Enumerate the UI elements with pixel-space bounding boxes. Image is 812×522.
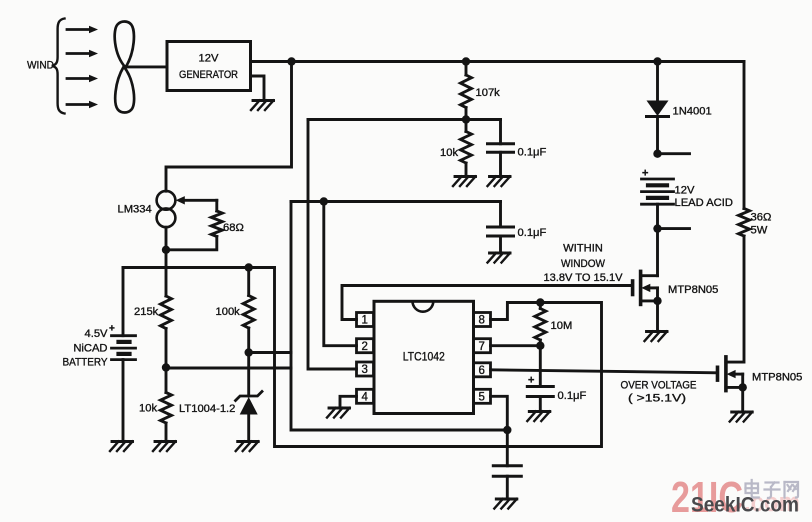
wire battery to Q1 drain	[656, 229, 659, 276]
node junction divider	[462, 115, 470, 123]
svg-text:10k: 10k	[139, 403, 157, 415]
node junction 10M bottom	[536, 342, 544, 350]
ground pin4	[327, 408, 350, 418]
node junction LM334/68ohm	[162, 246, 170, 254]
resistor R7 10k	[161, 368, 172, 442]
label 107k	[476, 87, 501, 99]
ground generator	[251, 101, 274, 111]
ground C1	[488, 177, 511, 187]
label 4.5V	[84, 328, 108, 340]
svg-text:MTP8N05: MTP8N05	[752, 372, 802, 384]
svg-text:2: 2	[361, 341, 367, 353]
svg-text:6: 6	[478, 365, 484, 377]
label LTC1042	[403, 350, 445, 364]
transistor Q1 MTP8N05	[633, 271, 662, 305]
wind turbine propeller blade lower	[115, 67, 134, 113]
svg-text:MTP8N05: MTP8N05	[668, 284, 718, 296]
wind arrow 4	[67, 101, 98, 109]
svg-text:SeekIC.com: SeekIC.com	[691, 494, 799, 517]
label battery plus sign	[642, 168, 648, 180]
svg-text:3: 3	[361, 364, 367, 376]
wire Q2 source to ground	[741, 387, 744, 412]
wire battery rail	[123, 266, 275, 269]
label 100k	[216, 306, 241, 318]
wire rail right corner to 36ohm	[743, 62, 746, 209]
pin 6 box	[474, 363, 491, 377]
pin 4 box	[357, 389, 374, 403]
label Q1 MTP8N05	[668, 284, 718, 296]
wire pin6 to Q2 gate	[491, 370, 717, 373]
label C4 plus sign	[528, 375, 534, 387]
ground C2	[488, 253, 511, 263]
op-amp U1 LTC1042 body	[374, 301, 474, 413]
node junction 10M top	[536, 298, 544, 306]
ground LT1004	[236, 442, 259, 452]
svg-text:4: 4	[361, 392, 368, 404]
wire generator lower output	[251, 76, 265, 101]
svg-text:GENERATOR: GENERATOR	[179, 69, 238, 81]
wire rail drop right	[275, 268, 602, 447]
LM334 set-pin arrow	[176, 196, 217, 204]
wire 100k node right	[249, 351, 291, 354]
pin 7 box	[474, 339, 491, 353]
ground NiCAD	[110, 442, 133, 452]
resistor R5 36ohm 5W	[739, 209, 750, 363]
wire pin1 to Q1 gate	[342, 286, 631, 320]
wind arrow 2	[67, 50, 98, 58]
svg-text:OVER VOLTAGE: OVER VOLTAGE	[621, 379, 697, 391]
label 215k	[134, 306, 159, 318]
svg-text:1: 1	[361, 315, 367, 327]
label 12V	[675, 185, 695, 197]
pin 8 box	[474, 313, 491, 327]
label LT1004-1.2	[179, 403, 235, 415]
svg-text:BATTERY: BATTERY	[63, 357, 108, 369]
node junction 100k bottom	[245, 348, 253, 356]
node junction 215k bottom	[162, 363, 170, 371]
label over 15.1V	[628, 393, 686, 405]
svg-text:10M: 10M	[551, 320, 573, 332]
svg-text:1N4001: 1N4001	[673, 106, 712, 118]
wire Q1 source to ground	[656, 301, 659, 332]
resistor R2 68ohm	[170, 200, 222, 250]
capacitor C2 0.1uF	[488, 202, 514, 254]
wire pin5 down	[491, 396, 508, 430]
node junction 100k top	[245, 263, 253, 271]
battery B1 12V lead acid	[642, 179, 674, 229]
label 1N4001	[673, 106, 712, 118]
svg-text:68Ω: 68Ω	[223, 222, 244, 234]
wire top supply rail	[251, 60, 745, 63]
ground Q1	[645, 332, 668, 342]
watermark 21IC	[671, 473, 743, 522]
node junction pin2 tap	[320, 197, 328, 205]
watermark dianziwang	[746, 480, 799, 498]
wire sense bus vertical	[291, 202, 507, 431]
watermark SeekIC.com	[691, 494, 799, 517]
node junction battery plus	[653, 150, 689, 158]
svg-text:12V: 12V	[675, 185, 695, 197]
svg-text:LEAD ACID: LEAD ACID	[675, 197, 733, 209]
label NiCAD	[73, 343, 107, 355]
wire 215k node right	[166, 367, 291, 370]
wire sense node to C2	[291, 200, 501, 203]
ground C3	[494, 499, 517, 509]
label LM334	[118, 204, 152, 216]
capacitor C4 0.1uF	[527, 346, 553, 412]
pin 1 box	[357, 313, 374, 327]
current source U2 LM334 upper circle	[157, 191, 176, 210]
svg-text:( >15.1V): ( >15.1V)	[628, 393, 686, 405]
capacitor C3 bottom	[493, 430, 521, 499]
svg-text:10k: 10k	[440, 147, 458, 159]
wind arrow 1	[67, 26, 98, 34]
generator block 12V GENERATOR	[167, 42, 251, 91]
resistor R9 10M	[535, 303, 546, 346]
label 5W	[751, 225, 768, 237]
label 10k left	[139, 403, 157, 415]
svg-text:0.1μF: 0.1μF	[518, 227, 547, 239]
svg-text:12V: 12V	[199, 53, 219, 65]
pin 5 box	[474, 389, 491, 403]
wire rail to NiCAD	[122, 268, 125, 336]
svg-text:36Ω: 36Ω	[751, 212, 772, 224]
svg-text:100k: 100k	[216, 306, 241, 318]
ground 10k left	[153, 442, 176, 452]
wire divider node	[308, 118, 501, 121]
svg-text:8: 8	[478, 315, 484, 327]
svg-text:WITHIN: WITHIN	[563, 243, 603, 255]
wire pin2 to sense node	[324, 202, 357, 346]
resistor R8 100k	[243, 268, 254, 353]
wind arrow 3	[67, 75, 98, 83]
node junction diode top	[653, 57, 661, 65]
diode D1 1N4001	[647, 62, 669, 154]
label BATTERY	[63, 357, 108, 369]
watermark pink com	[744, 487, 800, 517]
wire pin4 to ground	[340, 396, 357, 408]
svg-text:0.1μF: 0.1μF	[558, 390, 587, 402]
label 68ohm	[223, 222, 244, 234]
wire LM334 bottom	[165, 227, 168, 296]
resistor R3 107k	[461, 62, 472, 120]
wind turbine propeller blade upper	[115, 22, 134, 68]
ground C4	[527, 412, 550, 422]
wire fan shaft to generator	[127, 65, 167, 68]
brace for wind arrows	[52, 19, 65, 114]
wire pin3 to divider node	[308, 120, 357, 370]
svg-text:+: +	[109, 324, 115, 335]
node junction pin5 bus	[503, 426, 511, 434]
svg-text:5W: 5W	[751, 225, 768, 237]
svg-text:13.8V TO 15.1V: 13.8V TO 15.1V	[544, 272, 624, 284]
label C1 0.1uF	[518, 147, 547, 159]
svg-text:107k: 107k	[476, 87, 501, 99]
label 13.8V TO 15.1V	[544, 272, 624, 284]
label WITHIN	[563, 243, 603, 255]
svg-text:215k: 215k	[134, 306, 159, 318]
label C4 0.1uF	[558, 390, 587, 402]
label C2 0.1uF	[518, 227, 547, 239]
node junction generator output	[287, 57, 295, 65]
label Q2 MTP8N05	[752, 372, 802, 384]
current source U2 LM334 lower circle	[157, 208, 176, 227]
svg-text:7: 7	[478, 341, 484, 353]
label OVER VOLTAGE	[621, 379, 697, 391]
label NiCAD plus sign	[109, 324, 115, 335]
wire pin7 to 10M bottom	[491, 344, 541, 347]
svg-text:LM334: LM334	[118, 204, 152, 216]
resistor R6 215k	[161, 296, 172, 368]
wire rail down to LM334	[166, 62, 292, 192]
label LEAD ACID	[675, 197, 733, 209]
svg-text:+: +	[528, 375, 534, 387]
label 10k	[440, 147, 458, 159]
ground 10k	[453, 177, 476, 187]
resistor R4 10k	[461, 120, 472, 177]
svg-text:LT1004-1.2: LT1004-1.2	[179, 403, 235, 415]
svg-text:0.1μF: 0.1μF	[518, 147, 547, 159]
battery B2 4.5V NiCAD	[112, 336, 136, 442]
node label WIND	[27, 60, 54, 72]
label WINDOW	[561, 258, 605, 270]
pin 3 box	[357, 362, 374, 376]
svg-text:5: 5	[478, 392, 484, 404]
node junction 107k top	[462, 57, 470, 65]
node junction battery bottom	[653, 224, 689, 232]
pin 2 box	[357, 339, 374, 353]
svg-text:NiCAD: NiCAD	[73, 343, 107, 355]
svg-text:WINDOW: WINDOW	[561, 258, 605, 270]
transistor Q2 MTP8N05	[718, 236, 747, 392]
svg-text:4.5V: 4.5V	[84, 328, 108, 340]
capacitor C1 0.1uF	[488, 120, 514, 177]
svg-text:LTC1042: LTC1042	[403, 350, 445, 364]
ground Q2	[730, 412, 753, 422]
label 36ohm	[751, 212, 772, 224]
label 10M	[551, 320, 573, 332]
zener diode D2 LT1004-1.2	[236, 353, 263, 442]
svg-text:WIND: WIND	[27, 60, 54, 72]
